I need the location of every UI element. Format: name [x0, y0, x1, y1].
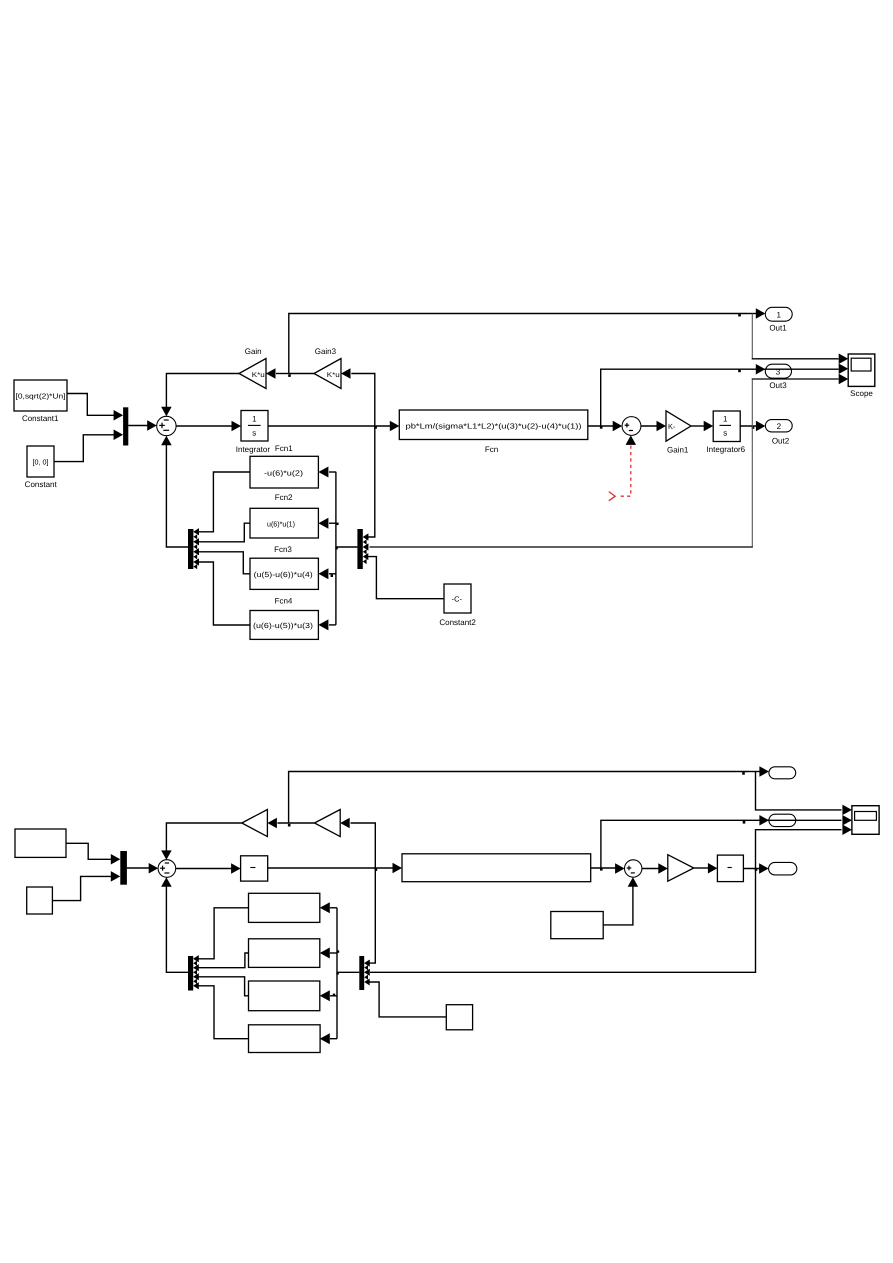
junction on Out1 wire (lower)	[742, 772, 745, 775]
wire Fcn to Sum1	[588, 421, 622, 432]
wire branch vertical to Gain3 input / right mux port 1 (lower)	[351, 823, 376, 967]
wire branch up to Out3 and Scope port 2 (lower)	[601, 815, 852, 868]
wire Fcn3 output to Mux2 port 5	[193, 548, 250, 574]
svg-text:3: 3	[776, 368, 781, 377]
wire stub into Fcn3 input (lower)	[320, 990, 337, 1001]
svg-text:Gain3: Gain3	[315, 347, 337, 356]
svg-text:Fcn3: Fcn3	[274, 545, 292, 554]
svg-text:Integrator: Integrator	[236, 445, 271, 454]
svg-text:Scope: Scope	[850, 389, 873, 398]
block Constant1 [0,sqrt(2)*Un]	[14, 380, 67, 423]
junction right mux output tee (lower)	[336, 972, 338, 974]
svg-text:Integrator6: Integrator6	[706, 445, 745, 454]
wire stub into Fcn3 input	[318, 568, 336, 579]
fcn Fcn (rotor equation)	[399, 410, 588, 454]
scope Scope (lower)	[852, 806, 879, 835]
fcn Fcn2 (lower, empty)	[249, 939, 320, 968]
junction near Fcn2 input	[336, 523, 338, 525]
gain Gain (lower, left-pointing)	[242, 810, 268, 837]
wire Gain output to Sum top input	[161, 374, 239, 417]
outport Out1	[765, 307, 792, 332]
junction on Out3 wire (lower)	[743, 821, 746, 824]
svg-text:Fcn1: Fcn1	[275, 444, 293, 453]
fcn Fcn (lower, empty)	[402, 854, 591, 882]
block Constant [0, 0]	[25, 446, 58, 489]
wire branch up to Out3 and Scope port 2	[601, 364, 849, 426]
wire Fcn2 output to left mux port 3 (lower)	[193, 953, 248, 971]
wire Integrator6 to Out2 (lower)	[743, 863, 768, 874]
wire Constant to Mux4 port 2	[54, 430, 123, 462]
wire Constant-lower to input mux port 2	[52, 871, 120, 900]
junction on Fcn output (lower)	[600, 868, 603, 871]
outport Out2 (lower, empty)	[769, 862, 797, 875]
gain Gain1 (K-, right-pointing)	[666, 411, 691, 455]
block Constant1 (lower, empty)	[15, 829, 66, 857]
wire Mux2 output to Sum bottom input	[161, 436, 188, 547]
wire Fcn1 output to Mux2 port 1	[193, 472, 250, 535]
wire Gain3 output to Gain input (lower)	[267, 818, 314, 829]
wire Gain output to Sum top input (lower)	[161, 823, 242, 860]
wire Sum1 to Gain1 (lower)	[642, 863, 668, 874]
svg-text:Constant: Constant	[25, 480, 58, 489]
svg-text:1: 1	[252, 415, 257, 424]
svg-text:Gain1: Gain1	[667, 446, 689, 455]
svg-text:Out2: Out2	[772, 437, 790, 446]
wire Out1 branch down to Scope port 1	[752, 314, 849, 365]
wire branch vertical to Gain3 input and down to Mux1 port 1	[351, 374, 375, 541]
wire Integrator6 to Out2	[740, 421, 765, 432]
mux Mux1 (right collector mux)	[357, 529, 368, 569]
block Constant2 (lower, empty)	[446, 1005, 472, 1030]
gain Gain3 (lower, left-pointing)	[315, 810, 350, 837]
svg-text:Out3: Out3	[769, 381, 787, 390]
svg-text:Fcn2: Fcn2	[275, 493, 293, 502]
svg-text:-C-: -C-	[452, 595, 463, 604]
outport Out2	[765, 420, 792, 446]
svg-text:K*u: K*u	[327, 372, 340, 379]
wire left mux output to Sum bottom (lower)	[161, 877, 188, 972]
junction near Fcn3 input (lower)	[333, 994, 335, 996]
wire vertical x752 from Scope port3 row down to feedback row y547	[363, 374, 848, 551]
wire Fcn4 output to left mux port 7 (lower)	[193, 982, 248, 1038]
svg-text:pb*Lm/(sigma*L1*L2)*(u(3)*u(2): pb*Lm/(sigma*L1*L2)*(u(3)*u(2)-u(4)*u(1)…	[406, 422, 582, 431]
wire Gain1 to Integrator6 (lower)	[694, 863, 718, 874]
svg-text:1: 1	[776, 311, 781, 320]
wire Fcn2 output to Mux2 port 3	[193, 523, 250, 545]
outport Out3	[765, 364, 791, 390]
outport Out3 (lower, empty)	[769, 814, 796, 826]
svg-text:Fcn: Fcn	[485, 445, 498, 454]
svg-text:Out1: Out1	[769, 324, 787, 333]
sum Sum (+ - -)	[157, 416, 176, 435]
svg-text:Gain: Gain	[245, 347, 262, 356]
mux Mux4 (input mux)	[123, 407, 128, 445]
gain Gain (K*u, left-pointing)	[239, 347, 266, 389]
wire Sum to Integrator	[176, 421, 241, 432]
outport Out1 (lower, empty)	[769, 767, 796, 779]
wire Fcn3 output to left mux port 5 (lower)	[193, 973, 248, 996]
block feed block (lower extra constant)	[551, 912, 603, 939]
wire Constant2 to Mux1 port 3	[368, 557, 445, 599]
wire Integrator to Fcn (lower)	[268, 863, 402, 874]
wire feed block to Sum1 bottom (lower)	[603, 887, 633, 925]
wire stub into Fcn1 input	[318, 467, 336, 478]
junction on Out2 wire (lower)	[755, 868, 758, 871]
mux right collector mux (lower)	[359, 956, 369, 990]
junction on Out2 wire (branch to Scope and Mux1)	[752, 426, 755, 429]
junction on Out1 wire	[738, 314, 741, 317]
mux left collector mux (lower)	[188, 955, 199, 990]
sum Sum1 (+ -)	[622, 417, 641, 436]
fcn Fcn2 u(6)*u(1)	[250, 493, 318, 538]
fcn Fcn3 (lower, empty)	[249, 981, 320, 1011]
wire stub into Fcn2 input (lower)	[320, 948, 337, 959]
svg-text:u(6)*u(1): u(6)*u(1)	[267, 519, 295, 528]
wire Constant1 to Mux4 port 1	[67, 394, 123, 421]
wire stub into Fcn1 input (lower)	[320, 902, 337, 913]
junction Mux1 output tee	[335, 547, 337, 549]
junction near Fcn3 input	[331, 575, 333, 577]
wire Integrator to Fcn	[268, 421, 399, 432]
wire input mux to Sum (lower)	[127, 863, 158, 874]
wire stub into Fcn2 input	[318, 518, 336, 529]
junction on Out3 wire	[738, 370, 741, 373]
gain Gain3 (K*u, left-pointing)	[314, 347, 341, 389]
wire Mux1 output to Fcn inputs vertical bus	[336, 472, 358, 625]
block Constant2 -C-	[439, 584, 476, 627]
wire Constant1-lower to input mux port 1	[66, 843, 120, 864]
wire Gain3 output to Gain input and branch up to Out1	[266, 368, 314, 379]
fcn Fcn3 (u(5)-u(6))*u(4)	[250, 545, 318, 589]
gain Gain1 (lower, right-pointing)	[668, 855, 694, 882]
junction at Gain feed branch (lower)	[288, 824, 291, 827]
wire stub into Fcn4 input (lower)	[320, 1033, 337, 1044]
wire Constant2 to right mux port 3 (lower)	[369, 982, 447, 1017]
sum Sum1 (lower)	[625, 860, 642, 877]
wire Fcn1 output to left mux port 1 (lower)	[193, 908, 248, 963]
junction at Gain feed branch	[288, 374, 291, 377]
wire Fcn4 output to Mux2 port 7	[193, 559, 250, 626]
integrator Integrator (1/s)	[236, 411, 271, 455]
wire Out1 branch down to Scope port 1 (lower)	[756, 772, 852, 816]
wire Gain1 to Integrator6	[691, 421, 713, 432]
arrow into Sum1 bottom (lower)	[628, 877, 639, 887]
svg-text:s: s	[252, 429, 256, 438]
fcn Fcn1 (lower, empty)	[249, 893, 320, 922]
wire vertical up from Gain wire to Out1 row	[289, 308, 766, 373]
wire vertical from Scope port3 row down to feedback row (lower)	[364, 824, 852, 975]
wire Sum1 to Gain1	[641, 421, 666, 432]
fcn Fcn4 (lower, empty)	[249, 1025, 321, 1053]
svg-text:Fcn4: Fcn4	[275, 596, 293, 605]
integrator Integrator6 (lower, tiny 1/s)	[717, 855, 743, 882]
mux input mux (lower)	[120, 851, 127, 885]
svg-text:[0,sqrt(2)*Un]: [0,sqrt(2)*Un]	[16, 392, 66, 401]
scope Scope	[848, 354, 875, 398]
junction near Fcn2 input (lower)	[337, 950, 339, 952]
integrator Integrator (lower, tiny 1/s)	[241, 856, 268, 881]
wire Fcn to Sum1 (lower)	[591, 863, 625, 874]
fcn Fcn1 -u(6)*u(2)	[250, 444, 318, 488]
svg-text:1: 1	[723, 415, 728, 424]
svg-text:s: s	[723, 429, 727, 438]
svg-text:K-: K-	[668, 422, 676, 431]
svg-text:Constant2: Constant2	[439, 618, 476, 627]
fcn Fcn4 (u(6)-u(5))*u(3)	[250, 596, 318, 639]
sum Sum (lower)	[158, 860, 176, 878]
svg-text:2: 2	[777, 422, 782, 431]
svg-text:-u(6)*u(2): -u(6)*u(2)	[264, 468, 303, 477]
junction on Fcn output (branch to Out3)	[600, 426, 603, 429]
junction on Integrator output (branch to Gain3 / Mux1)	[374, 426, 377, 429]
arrow into Gain3	[341, 368, 351, 379]
red dashed unconnected line into Sum1	[609, 446, 631, 501]
wire right mux output to Fcn input bus (lower)	[337, 908, 359, 1039]
svg-text:K*u: K*u	[252, 372, 265, 379]
wire stub into Fcn4 input	[318, 619, 336, 630]
arrow into Sum1 bottom (from unconnected line)	[626, 435, 637, 445]
wire Sum to Integrator (lower)	[176, 863, 241, 874]
junction on Integrator output (lower)	[375, 868, 378, 871]
svg-text:(u(5)-u(6))*u(4): (u(5)-u(6))*u(4)	[254, 570, 313, 579]
svg-text:[0, 0]: [0, 0]	[33, 458, 49, 467]
wire Mux4 to Sum	[128, 420, 156, 431]
svg-text:Constant1: Constant1	[22, 414, 59, 423]
svg-text:(u(6)-u(5))*u(3): (u(6)-u(5))*u(3)	[253, 621, 313, 630]
wire vertical up to Out1 row (lower)	[289, 766, 769, 823]
block Constant (lower, empty)	[27, 887, 53, 914]
integrator Integrator6 (1/s)	[706, 411, 745, 454]
mux Mux2 (left collector mux)	[188, 528, 199, 569]
